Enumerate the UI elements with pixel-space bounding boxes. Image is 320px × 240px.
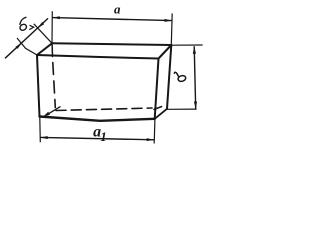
box edge: front right vertical (FTR-FBR) [155,59,159,119]
dimension б : label б glyph tail (rotated form) [174,72,178,77]
dimension a1 : right arrowhead [147,138,155,141]
dimension в : lower arrowhead (points up-right) [16,43,23,49]
box edge: back right vertical (BTR-BBR) [167,45,171,109]
dimension б : extension line bottom (from BBR) [168,108,197,110]
dimension a1 : dimension line [40,137,154,139]
hidden edge: bottom-left depth (BBL-FBL) with arrow shaft [45,107,61,116]
box edge: front left vertical (FTL-FBL) [37,55,40,117]
dimension в : dimension line (diagonal) [5,18,48,58]
в flourish chevron [30,25,34,29]
dimension в : label в (drawn as 6-like italic glyph path) [19,17,34,31]
dimension б : label б rotated [174,72,186,82]
box edge: back top (BTL-BTR) [52,43,171,45]
box edge: top-right depth (BTR-FTR) [159,45,172,59]
hidden edge: back bottom last slanted dash near BBR [154,107,162,110]
box edge: top-left depth (BTL-FTL) [37,43,52,55]
dimension б : dimension line (vertical) [194,46,196,109]
box edge: bottom-right depth (FBR-BBR) [155,109,167,119]
box edge: front bottom (FBL-FBR) [40,117,155,121]
dimension б : extension line top (from BTR) [172,44,203,46]
hidden edge: back left vertical dashed (BTL-BBL) [53,63,56,108]
dimension a : extension line left (x=52) [51,11,53,43]
dimension a1 : extension line right (from FBR) [153,120,156,144]
dimension a1 : left arrowhead [40,136,48,139]
dimension a : extension line right (x=172) [170,13,173,45]
dimension a1 : extension line left (from FBL) [39,118,42,143]
dimension б : top arrowhead (points up) [193,46,196,54]
svg-text:а: а [114,2,121,17]
arrowhead on bottom-left depth edge at FBL [43,112,50,117]
dimension в : upper arrowhead (points down-left) [38,22,45,28]
svg-text:1: 1 [100,129,107,144]
dimension б : label б glyph loop (rotated form) [177,75,186,83]
dimension a : right arrowhead [165,19,173,22]
hidden edge: back left vertical solid stub below BTL [51,43,53,56]
dimension a : left arrowhead [52,16,60,19]
box edge: front top (FTL-FTR) [37,55,159,59]
dimension б : bottom arrowhead (points down) [194,102,197,110]
hidden edge: back bottom dashed (BBL-BBR) [56,108,152,111]
dimension в : extension line from BTL [34,24,52,44]
dimension в : extension line from FTL [17,38,37,55]
dimension a : dimension line [52,18,172,21]
